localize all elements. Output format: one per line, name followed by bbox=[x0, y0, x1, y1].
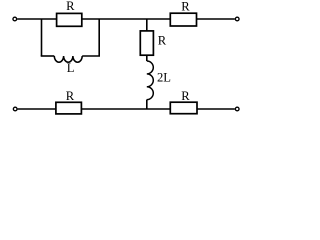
terminal bottom-right bbox=[235, 107, 239, 111]
resistor R1 (top left) bbox=[57, 13, 82, 26]
wire top rail bbox=[17, 18, 235, 20]
resistor R4 (bottom left) bbox=[56, 102, 82, 114]
wire lower branch left segment bbox=[41, 55, 55, 57]
svg-text:R: R bbox=[158, 33, 167, 47]
svg-text:R: R bbox=[66, 0, 75, 13]
resistor R2 (top right) bbox=[170, 13, 196, 26]
svg-text:L: L bbox=[67, 61, 75, 75]
inductor L bbox=[54, 56, 82, 62]
wire middle branch drop bbox=[146, 19, 148, 31]
svg-text:R: R bbox=[66, 89, 75, 103]
wire bottom rail bbox=[18, 108, 235, 110]
wire between R3 and coil bbox=[146, 56, 148, 61]
svg-text:R: R bbox=[181, 89, 190, 103]
wire parallel-section left drop bbox=[41, 19, 43, 56]
terminal bottom-left bbox=[13, 107, 17, 111]
resistor R3 (middle vertical) bbox=[140, 31, 153, 55]
svg-text:2L: 2L bbox=[157, 70, 171, 84]
wire lower branch right segment bbox=[82, 55, 100, 57]
resistor R5 (bottom right) bbox=[170, 102, 197, 114]
wire parallel-section right riser bbox=[98, 19, 100, 56]
wire coil to bottom rail bbox=[146, 100, 148, 109]
terminal top-right bbox=[235, 17, 239, 21]
terminal top-left bbox=[13, 17, 17, 21]
inductor 2L bbox=[147, 61, 154, 100]
svg-text:R: R bbox=[181, 0, 190, 13]
